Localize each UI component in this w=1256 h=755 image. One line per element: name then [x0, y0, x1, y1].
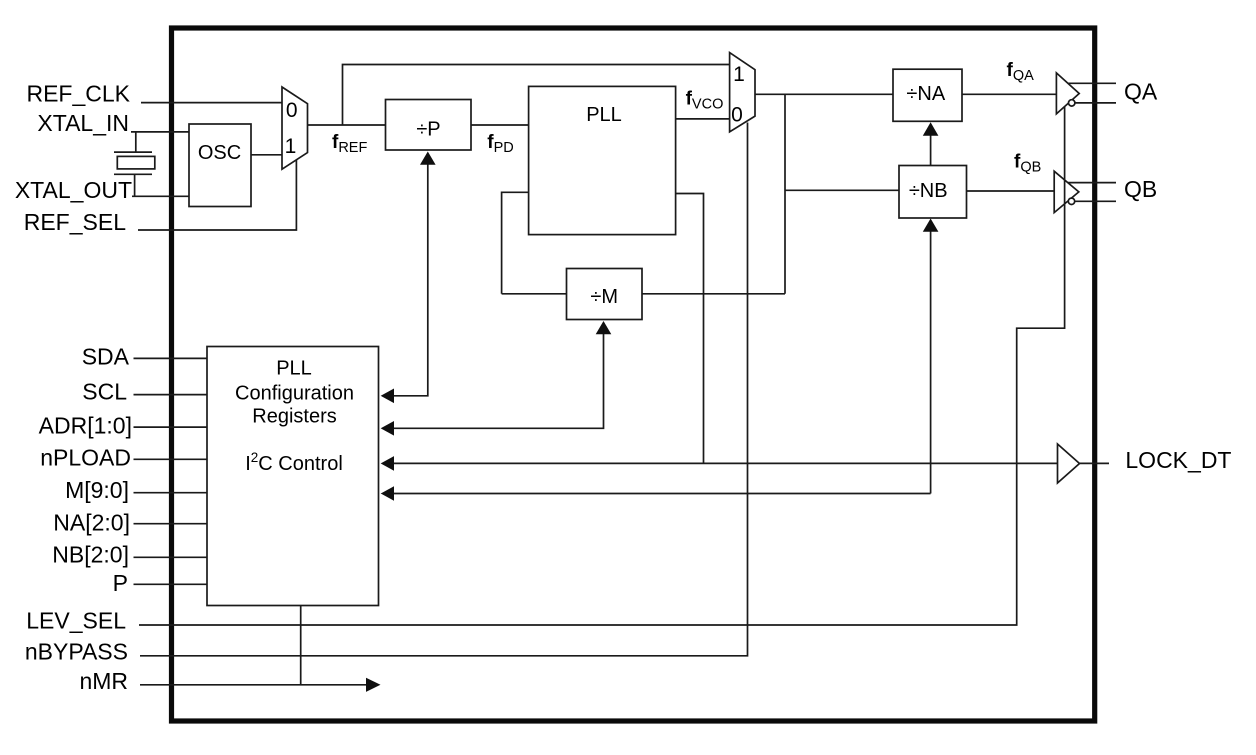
arrowhead into registers 1	[381, 389, 394, 404]
wire OSC out to mux1	[251, 154, 282, 156]
arrowhead into divNA	[923, 122, 939, 135]
wire registers to NB control horizontal	[393, 493, 931, 495]
divider NB box	[899, 166, 967, 219]
wire PLL lock out	[676, 194, 704, 464]
arrowhead nMR	[366, 678, 381, 692]
divider M box	[567, 269, 643, 320]
arrowhead into registers 2	[381, 421, 394, 436]
svg-text:REF_CLK: REF_CLK	[26, 81, 130, 107]
svg-text:nBYPASS: nBYPASS	[25, 639, 128, 665]
wire NB pin	[134, 556, 208, 558]
svg-text:nPLOAD: nPLOAD	[40, 444, 131, 470]
svg-text:QA: QA	[1124, 79, 1158, 105]
svg-text:Registers: Registers	[252, 406, 336, 428]
wire NA pin	[134, 523, 208, 525]
mux U2 (bypass select)	[730, 53, 755, 132]
svg-text:÷NB: ÷NB	[909, 180, 948, 202]
svg-text:QB: QB	[1124, 176, 1157, 202]
wire nMR	[140, 684, 366, 686]
PLL configuration registers box	[207, 347, 379, 606]
svg-text:XTAL_OUT: XTAL_OUT	[15, 177, 132, 203]
svg-text:I2C Control: I2C Control	[245, 450, 343, 475]
divider NA box	[893, 69, 962, 121]
svg-text:NA[2:0]: NA[2:0]	[53, 509, 130, 535]
svg-text:P: P	[113, 570, 128, 596]
wire divM line	[502, 293, 567, 295]
chip boundary border	[172, 28, 1095, 721]
svg-text:ADR[1:0]: ADR[1:0]	[39, 412, 132, 438]
arrowhead into divNB	[923, 219, 939, 232]
wire LEV_SEL to output buffers	[139, 107, 1065, 625]
wire REF_CLK to mux0	[141, 102, 282, 104]
wire REF_SEL to mux select	[138, 160, 296, 231]
wire P pin	[134, 583, 208, 585]
wire nBYPASS to mux select	[140, 123, 748, 656]
svg-text:LOCK_DT: LOCK_DT	[1125, 447, 1231, 473]
wire node to divM input	[784, 94, 786, 293]
wire registers bottom to nMR	[300, 606, 302, 685]
wire M pin	[134, 492, 208, 494]
arrowhead into registers 4	[381, 486, 394, 501]
svg-text:÷NA: ÷NA	[906, 83, 945, 105]
wire fQA: divNA to QA buffer	[962, 93, 1056, 95]
wire fPD: divP to PLL	[471, 124, 529, 126]
wire nPLOAD pin	[134, 458, 208, 460]
svg-text:XTAL_IN: XTAL_IN	[37, 110, 129, 136]
svg-text:÷P: ÷P	[416, 119, 440, 141]
wire divM out to PLL feedback	[502, 192, 529, 293]
wire LOCK_DT out	[1080, 462, 1110, 464]
divider P box	[386, 100, 472, 151]
arrowhead into divM	[596, 321, 612, 334]
svg-text:REF_SEL: REF_SEL	[24, 209, 126, 235]
svg-text:1: 1	[285, 135, 297, 158]
wire registers to divM control	[393, 333, 604, 428]
svg-text:NB[2:0]: NB[2:0]	[52, 541, 129, 567]
wire registers to NB control vertical	[930, 231, 932, 494]
mux U1 (input select)	[282, 87, 308, 169]
wire node to divNB input	[785, 189, 899, 191]
buffer QB outputs	[1068, 183, 1116, 205]
buffer LOCK_DT triangle	[1058, 444, 1080, 483]
registers box text	[235, 357, 354, 475]
svg-text:PLL: PLL	[276, 357, 312, 379]
svg-text:PLL: PLL	[586, 104, 622, 126]
arrowhead into registers 3	[381, 456, 394, 471]
svg-text:Configuration: Configuration	[235, 382, 354, 404]
wire mux out to divNA	[755, 93, 893, 95]
svg-text:M[9:0]: M[9:0]	[65, 477, 129, 503]
buffer QA triangle	[1056, 73, 1079, 114]
PLL box	[529, 86, 676, 234]
wire fVCO: PLL to mux0	[676, 118, 730, 120]
svg-text:OSC: OSC	[198, 142, 241, 164]
svg-text:÷M: ÷M	[590, 286, 618, 308]
svg-text:LEV_SEL: LEV_SEL	[26, 608, 126, 634]
wire fREF: mux out to divP	[308, 124, 386, 126]
svg-text:SCL: SCL	[82, 379, 127, 405]
svg-text:1: 1	[733, 63, 745, 86]
crystal X1	[114, 132, 155, 196]
svg-text:0: 0	[731, 104, 743, 127]
wire NB to NA control	[930, 135, 932, 166]
oscillator OSC box	[189, 124, 251, 207]
wire SCL pin	[134, 394, 208, 396]
arrowhead into divP	[420, 152, 436, 165]
svg-text:0: 0	[286, 99, 298, 122]
wire lock line to LOCK_DT buffer	[393, 462, 1058, 464]
wire registers to divP control	[393, 164, 428, 396]
svg-text:SDA: SDA	[82, 344, 130, 370]
wire XTAL_IN to OSC	[131, 131, 189, 133]
svg-text:nMR: nMR	[79, 668, 128, 694]
wire ADR pin	[134, 426, 208, 428]
buffer QA outputs	[1068, 83, 1116, 106]
buffer QB triangle	[1054, 171, 1079, 212]
wire SDA pin	[134, 357, 208, 359]
wire fREF feedback to bypass mux1	[343, 65, 730, 126]
wire XTAL_OUT to OSC	[132, 195, 189, 197]
wire fQB: divNB to QB buffer	[967, 190, 1055, 192]
